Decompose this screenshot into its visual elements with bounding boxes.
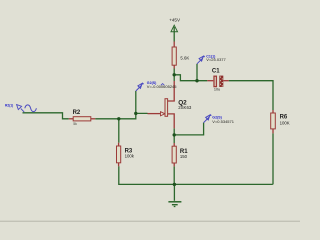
svg-text:R2(1): R2(1)	[5, 104, 13, 108]
svg-text:C1: C1	[212, 69, 220, 75]
svg-text:R2: R2	[73, 110, 81, 116]
svg-text:V=-0.000605245: V=-0.000605245	[147, 84, 177, 89]
svg-text:+45V: +45V	[169, 18, 181, 23]
svg-text:100k: 100k	[125, 153, 135, 158]
svg-text:5k: 5k	[73, 122, 77, 126]
svg-text:10u: 10u	[214, 88, 220, 92]
svg-text:100K: 100K	[280, 121, 290, 126]
svg-text:2SK63: 2SK63	[178, 105, 192, 110]
svg-text:150: 150	[180, 154, 188, 159]
svg-text:V=0.534571: V=0.534571	[212, 119, 234, 124]
svg-text:V=25.0377: V=25.0377	[206, 57, 226, 62]
svg-text:5.6K: 5.6K	[180, 56, 189, 61]
